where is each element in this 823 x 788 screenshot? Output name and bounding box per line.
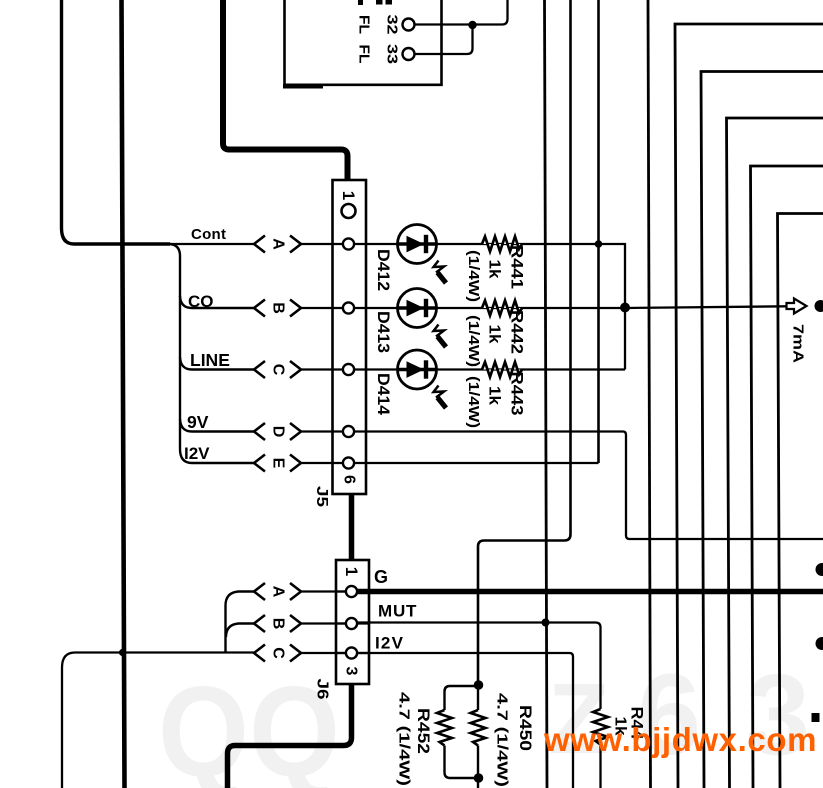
wire row B CO (301, 306, 786, 308)
wire long vertical x=570.5 with R450 feed (478, 0, 571, 684)
pin 32 circle (403, 19, 415, 31)
connector arrow J6-B left (254, 615, 265, 632)
svg-text:www.bjjdwx.com: www.bjjdwx.com (543, 721, 817, 758)
node blob right edge y718 (812, 713, 820, 722)
svg-text:3: 3 (746, 651, 810, 779)
wire J6 row A harness curve (226, 592, 255, 653)
svg-text:D412: D412 (374, 249, 393, 291)
wire pin32 to top (414, 0, 508, 25)
node junction MUT x=545.5 (542, 619, 550, 627)
svg-text:I2V: I2V (184, 444, 210, 463)
node junction row B x=625 (620, 303, 630, 313)
svg-text:R443: R443 (508, 372, 527, 416)
wire thick left vertical bus (62, 0, 171, 244)
wire vertical x=597.5 to row A (597, 0, 600, 463)
svg-text:(1/4W): (1/4W) (465, 376, 482, 428)
svg-text:4.7 (1/4W): 4.7 (1/4W) (396, 692, 413, 786)
wire 12V left harness (62, 653, 254, 788)
svg-text:D413: D413 (374, 311, 393, 353)
wire J6 row B harness curve (226, 624, 254, 638)
wire harness branch to 9V (180, 419, 254, 432)
wire drop B to C (624, 308, 626, 370)
connector arrow J5-C right (290, 361, 301, 378)
node junction row A x=597.5 (595, 240, 603, 248)
connector arrow J5-D left (254, 423, 265, 440)
node blob right edge y644 (816, 637, 823, 650)
wire rows inside J5 (333, 243, 366, 245)
wire thick J5 to J6 (349, 494, 355, 560)
svg-text:R452: R452 (414, 708, 433, 754)
svg-text:G: G (374, 567, 388, 587)
connector arrow J5-A left (254, 236, 265, 253)
wire row D 9V extension (301, 432, 823, 540)
node junction 12V x=122.5 (119, 649, 126, 656)
svg-text:32: 32 (384, 15, 400, 35)
svg-text:1: 1 (339, 191, 358, 200)
svg-text:J6: J6 (314, 679, 331, 700)
connector arrow J5-B left (254, 300, 265, 317)
svg-text:MUT: MUT (378, 602, 417, 621)
wire rows inside J6 (336, 590, 369, 592)
resistor R450 (477, 684, 479, 710)
connector J6 box (336, 560, 369, 684)
resistor R443 (482, 362, 522, 377)
svg-text:B: B (270, 618, 287, 630)
wire 12V right extension (357, 653, 573, 788)
wire right elbow 4 (751, 166, 823, 788)
svg-text:R441: R441 (508, 245, 527, 289)
svg-text:A: A (270, 238, 287, 250)
svg-text:A: A (270, 586, 287, 598)
wire row E 12V extension (301, 462, 599, 464)
connector arrow J5-B right (290, 300, 301, 317)
wire row A to drop corner (522, 244, 625, 308)
svg-text:I2V: I2V (375, 634, 404, 653)
wire right elbow 1 (675, 24, 823, 788)
pin J6-3 circle (346, 647, 357, 658)
connector arrow J6-A left (254, 583, 265, 600)
svg-text:Cont: Cont (191, 226, 226, 243)
svg-text:1k: 1k (486, 325, 503, 344)
wire right elbow 5 (778, 214, 823, 788)
svg-text:1: 1 (342, 567, 361, 576)
svg-text:C: C (270, 364, 287, 376)
svg-text:QQ: QQ (158, 661, 340, 788)
svg-text:1k: 1k (486, 260, 503, 279)
pin J5-B circle (343, 302, 354, 313)
wire R444 bottom to edge (599, 744, 601, 788)
connector arrow J5-D right (290, 423, 301, 440)
connector arrow J6-A right (290, 583, 301, 600)
connector arrow J6-B right (290, 615, 301, 632)
wire G line thick (358, 589, 823, 595)
resistor R444 (593, 709, 608, 745)
LED D412 (398, 225, 447, 284)
svg-text:J5: J5 (313, 486, 330, 507)
svg-text:FL: FL (356, 15, 372, 34)
svg-text:R442: R442 (508, 310, 527, 354)
connector arrow J5-A right (290, 236, 301, 253)
connector J5 box (333, 180, 367, 494)
connector arrow J5-E right (290, 455, 301, 472)
svg-text:R450: R450 (516, 705, 535, 751)
pin 33 circle (403, 48, 415, 60)
pin J5-D circle (343, 426, 354, 437)
wire harness branch to CO (180, 296, 254, 308)
node junction R450 top (474, 680, 484, 690)
LED D414 (398, 350, 447, 408)
wire harness branch to LINE (180, 357, 254, 370)
resistor R452 (445, 686, 479, 710)
pin J5-C circle (343, 364, 354, 375)
svg-text:3: 3 (343, 667, 360, 676)
svg-text:1k: 1k (486, 386, 503, 405)
svg-text:B: B (270, 302, 287, 314)
connector arrow J5-C left (254, 361, 265, 378)
svg-text:4.7 (1/4W): 4.7 (1/4W) (494, 693, 511, 787)
svg-text:6: 6 (341, 475, 358, 484)
wire long vertical x=649 (648, 0, 651, 788)
connector arrow J6-C right (290, 645, 301, 662)
connector arrow J5-E left (254, 455, 265, 472)
resistor R442 (482, 301, 522, 316)
node blob right edge y569 (816, 563, 823, 576)
arrow 7mA output (787, 299, 807, 314)
wire thick vertical long x=123 (122, 0, 125, 788)
wire thick J6 ground to bottom (228, 684, 352, 788)
wire long vertical x=545.5 (545, 0, 548, 788)
wire MUT line (357, 623, 601, 710)
wire J6 rows to box (301, 590, 346, 592)
wire harness vertical x=180 (170, 244, 254, 463)
svg-text:E: E (270, 458, 287, 469)
svg-text:(1/4W): (1/4W) (465, 250, 482, 302)
connector box FL32/33 (285, 0, 442, 85)
wire pin33 to junction (414, 27, 473, 54)
svg-text:FL: FL (356, 45, 372, 64)
pin J5-A circle (343, 238, 354, 249)
wire right elbow 2 (701, 72, 823, 788)
connector arrow J6-C left (254, 645, 265, 662)
wire right elbow 3 (727, 118, 823, 788)
LED D413 (398, 289, 447, 348)
svg-text:CO: CO (188, 292, 214, 311)
svg-text:9V: 9V (187, 412, 209, 432)
WATERMARK-GRAY (158, 651, 810, 788)
pin J6-1 circle (346, 586, 357, 597)
svg-text:LINE: LINE (190, 350, 230, 370)
pin J6-2 circle (346, 618, 357, 629)
node junction R450 bottom (474, 773, 484, 783)
svg-text:7mA: 7mA (790, 324, 807, 363)
resistor R441 (482, 237, 522, 252)
node dot right edge after arrow (815, 300, 823, 312)
svg-text:D: D (270, 426, 287, 438)
svg-text:D414: D414 (374, 373, 393, 416)
svg-text:C: C (270, 647, 287, 659)
pin J5-1 circle (342, 204, 356, 218)
pin J5-E circle (343, 457, 354, 468)
wire row C LINE (301, 368, 625, 370)
wire row A Cont (301, 243, 522, 245)
svg-text:(1/4W): (1/4W) (465, 315, 482, 367)
node junction pins 32-33 (468, 21, 476, 29)
svg-text:33: 33 (384, 44, 400, 64)
top edge cut glyph marks (376, 0, 383, 5)
wire thick top feed to J5 (223, 0, 348, 181)
